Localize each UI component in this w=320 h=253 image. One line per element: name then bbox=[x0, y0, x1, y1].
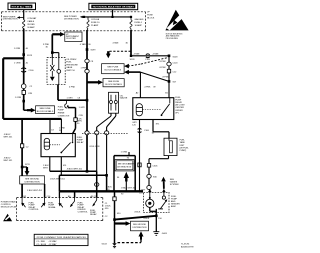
svg-text:PROCEDURES: PROCEDURES bbox=[166, 38, 178, 40]
fuel sender rheostat bbox=[158, 192, 167, 209]
svg-text:PRESSURE: PRESSURE bbox=[66, 64, 78, 66]
fuse 1 label bbox=[27, 17, 37, 29]
relay 2 label bbox=[175, 97, 185, 115]
svg-text:B1: B1 bbox=[165, 93, 168, 95]
PCM internal text 1 bbox=[29, 203, 40, 212]
label .8 BLK 150 bbox=[134, 212, 163, 221]
junction on ground wire bbox=[155, 215, 158, 218]
svg-text:C3: C3 bbox=[51, 130, 55, 132]
solid arrow into box A lower bbox=[124, 70, 140, 75]
svg-text:C100: C100 bbox=[144, 130, 150, 132]
sender pins down bbox=[97, 113, 116, 175]
svg-text:1 ORN: 1 ORN bbox=[14, 62, 21, 64]
splice 2 bbox=[22, 100, 25, 103]
svg-text:90: 90 bbox=[117, 177, 120, 179]
svg-text:30: 30 bbox=[46, 46, 49, 48]
relay 1 coil bbox=[44, 138, 49, 150]
svg-text:B1: B1 bbox=[152, 132, 155, 134]
svg-text:.8 BLK WHT 451: .8 BLK WHT 451 bbox=[67, 168, 83, 170]
svg-text:SEE FUSE: SEE FUSE bbox=[108, 81, 120, 83]
junction switch output bbox=[86, 99, 89, 102]
svg-text:.8 PNK: .8 PNK bbox=[159, 61, 166, 63]
svg-text:RELAY: RELAY bbox=[77, 141, 84, 144]
PCM dashed box bbox=[17, 198, 103, 221]
svg-text:CABLE: CABLE bbox=[27, 20, 34, 23]
wire from HOT AT ALL TIMES to fuse 1 bbox=[23, 10, 25, 20]
svg-text:SEE GROUND: SEE GROUND bbox=[25, 178, 39, 180]
pump terminal triangle bbox=[148, 189, 152, 192]
svg-text:SIGNAL: SIGNAL bbox=[48, 206, 56, 209]
C100 connector on GRY wire bbox=[138, 129, 142, 133]
svg-text:DISTRIBUTION: DISTRIBUTION bbox=[3, 19, 18, 21]
relay 1 label bbox=[77, 137, 84, 144]
svg-text:450: 450 bbox=[105, 208, 109, 210]
svg-text:RELAY: RELAY bbox=[90, 213, 97, 216]
svg-text:1 ORN: 1 ORN bbox=[15, 97, 22, 99]
svg-text:C16: C16 bbox=[47, 196, 52, 198]
pin labels A2 B1 bbox=[136, 92, 169, 95]
svg-text:1 BLK WHT 451: 1 BLK WHT 451 bbox=[50, 179, 66, 181]
svg-text:1 GRY: 1 GRY bbox=[139, 190, 146, 192]
svg-text:BLOCK DETAILS: BLOCK DETAILS bbox=[37, 110, 54, 113]
square connector on prime wire bbox=[74, 118, 77, 122]
svg-text:I/P: I/P bbox=[147, 12, 150, 14]
horizontal wire B bbox=[59, 174, 106, 176]
dashed ground route bbox=[118, 240, 142, 243]
down arrow inside switch bbox=[50, 77, 55, 81]
grommet 2 on PNK wire bbox=[85, 69, 89, 73]
square connector on frame right bbox=[138, 163, 141, 167]
fuse 2 label bbox=[91, 18, 100, 27]
svg-text:GAGE: GAGE bbox=[66, 66, 73, 69]
wire turn to arrow bbox=[24, 109, 30, 111]
svg-text:A1 C2: A1 C2 bbox=[91, 195, 98, 198]
PNK wire from fuse 2 down bbox=[86, 30, 88, 171]
svg-text:4 TAN: 4 TAN bbox=[80, 43, 86, 46]
svg-text:HOT AT ALL TIMES: HOT AT ALL TIMES bbox=[12, 5, 32, 8]
square connector on ground wire bbox=[113, 197, 116, 201]
svg-text:39: 39 bbox=[153, 87, 156, 89]
label .4 PNK 39 bbox=[144, 87, 157, 89]
junction S128 bbox=[168, 55, 171, 58]
svg-text:90: 90 bbox=[121, 194, 124, 196]
note box SEE GROUND DISTRIBUTION 2 bbox=[131, 221, 149, 231]
wire below note box 3 to PCM bbox=[44, 184, 46, 198]
svg-text:C8: C8 bbox=[91, 61, 95, 63]
note SEE POWER DISTRIBUTION left bbox=[3, 16, 18, 20]
dashed arrow into box A upper bbox=[124, 58, 168, 69]
svg-text:.8 PNK: .8 PNK bbox=[159, 67, 166, 69]
svg-text:PUMP): PUMP) bbox=[180, 150, 187, 152]
svg-text:DISTRIBUTION: DISTRIBUTION bbox=[117, 167, 131, 169]
junction dots on fuse bus bbox=[83, 16, 132, 18]
ESD warning triangle logo bbox=[165, 10, 188, 40]
svg-text:C100: C100 bbox=[29, 70, 35, 72]
PCM internal text 3 bbox=[78, 203, 89, 214]
svg-text:PRIME: PRIME bbox=[58, 112, 65, 114]
riser to cluster arrow bbox=[51, 34, 53, 52]
ground frame right vertical bbox=[134, 156, 136, 192]
wire from HOT IN RUN box down bbox=[112, 10, 114, 17]
svg-text:1 GRY: 1 GRY bbox=[128, 164, 135, 166]
svg-text:1 GRY: 1 GRY bbox=[79, 107, 86, 109]
svg-text:DISTRIBUTION: DISTRIBUTION bbox=[133, 227, 147, 229]
switch left pole with X bbox=[50, 58, 54, 77]
labels 8 BLK WHT 451 bbox=[4, 134, 14, 162]
svg-text:FUSE 10: FUSE 10 bbox=[91, 22, 100, 24]
wire x107 to thick bus bbox=[106, 175, 108, 191]
note SEE POWER DISTRIBUTION middle bbox=[64, 16, 79, 20]
note box SEE GROUND DISTRIBUTION 1 bbox=[115, 160, 134, 171]
relay 1 bottom pins bbox=[50, 157, 62, 176]
PCM internal text 4 bbox=[90, 210, 97, 216]
svg-text:4 TAN: 4 TAN bbox=[113, 42, 119, 45]
arrow into cluster box bbox=[52, 32, 65, 37]
fuel pump motor bbox=[146, 192, 154, 207]
svg-text:450: 450 bbox=[117, 213, 121, 215]
junction on wire A bbox=[86, 170, 89, 173]
relay 2 bottom pin left bbox=[139, 120, 141, 192]
grommet 2 on pump wire bbox=[147, 186, 151, 190]
thick bottom bus bbox=[59, 190, 143, 192]
svg-text:C2: C2 bbox=[30, 86, 34, 88]
relay 2 bottom pin right to prime box bbox=[153, 120, 169, 139]
svg-text:CONTROL: CONTROL bbox=[78, 211, 89, 213]
oil gauge sender box bbox=[109, 92, 119, 113]
svg-text:30 AMP: 30 AMP bbox=[27, 26, 35, 29]
small ESD triangle bbox=[3, 214, 12, 221]
oil pressure switch dashed box bbox=[47, 58, 65, 85]
svg-text:1 GRY: 1 GRY bbox=[67, 98, 74, 100]
splice S199 bbox=[86, 48, 89, 51]
svg-text:1 ORN: 1 ORN bbox=[14, 48, 21, 50]
svg-text:.4 PNK: .4 PNK bbox=[144, 87, 151, 89]
svg-text:.8 BLK GRY 451: .8 BLK GRY 451 bbox=[121, 188, 137, 190]
grommet connector on main wire bbox=[21, 84, 26, 89]
svg-text:TANK: TANK bbox=[180, 141, 186, 144]
svg-text:MODULE (PCM): MODULE (PCM) bbox=[1, 206, 17, 208]
svg-text:CONNECTOR: CONNECTOR bbox=[58, 115, 70, 117]
PCM pin drop at 59.4 bbox=[58, 191, 60, 197]
title box HOT AT ALL TIMES bbox=[8, 3, 36, 10]
svg-text:C1 - RED - 32 WAY: C1 - RED - 32 WAY bbox=[36, 240, 57, 243]
PCM drop from bus bbox=[74, 191, 76, 197]
relay 1 fuel pump relay box bbox=[41, 134, 75, 157]
svg-text:1 BLK WHT 451: 1 BLK WHT 451 bbox=[27, 190, 43, 192]
bottom pin labels bbox=[43, 165, 67, 169]
fuse bus wire bbox=[84, 16, 131, 18]
PCM internal text 2 bbox=[48, 203, 56, 209]
grommet on PNK wire bbox=[85, 59, 89, 63]
instrument cluster box bbox=[65, 32, 82, 42]
svg-text:FUSE 4: FUSE 4 bbox=[135, 22, 143, 24]
svg-text:S30: S30 bbox=[153, 176, 158, 178]
svg-text:G103: G103 bbox=[102, 244, 108, 246]
svg-text:C8: C8 bbox=[78, 98, 82, 100]
PCM internal drops bbox=[21, 198, 97, 208]
pin labels bbox=[51, 128, 66, 132]
square connector on main wire bbox=[22, 90, 25, 94]
fuel tank unit box bbox=[164, 138, 177, 155]
relay 2 coil bbox=[136, 104, 142, 116]
up arrow into note box 2 bbox=[139, 231, 144, 240]
ground feed horizontal bbox=[115, 216, 157, 220]
svg-text:1 ORN: 1 ORN bbox=[121, 152, 128, 154]
svg-text:SEE FUSE: SEE FUSE bbox=[40, 108, 52, 110]
branch to switch right pole bbox=[52, 53, 59, 58]
relay 1 link dashed bbox=[50, 144, 60, 146]
svg-text:.8 PNK: .8 PNK bbox=[162, 77, 169, 79]
up arrow into note box 1 bbox=[117, 172, 129, 192]
ground frame left vertical bbox=[113, 156, 115, 192]
svg-text:C2: C2 bbox=[105, 216, 109, 218]
arrow to left note bbox=[17, 16, 24, 18]
junction on ground wire bbox=[113, 218, 116, 221]
svg-text:150: 150 bbox=[158, 218, 162, 220]
square connector on pump wire bbox=[147, 164, 150, 168]
splice S211 bbox=[21, 166, 24, 169]
I/P fuse block label bbox=[147, 12, 155, 20]
svg-text:C305: C305 bbox=[153, 166, 159, 168]
svg-text:SWITCH: SWITCH bbox=[66, 70, 75, 72]
svg-text:GAUGES: GAUGES bbox=[135, 18, 145, 21]
svg-text:4 PNK: 4 PNK bbox=[69, 87, 76, 89]
fuel pump prime connector label bbox=[58, 106, 70, 117]
switch output wire to pump feed bbox=[58, 84, 87, 100]
horizontal feed wire bbox=[131, 55, 169, 57]
square connector bbox=[167, 69, 170, 73]
wire main ORN from fuse1 down bbox=[23, 29, 25, 111]
svg-text:120: 120 bbox=[139, 193, 143, 195]
relay 2 link dashed bbox=[142, 109, 160, 111]
svg-text:DISTRIBUTION: DISTRIBUTION bbox=[25, 181, 41, 183]
svg-text:40: 40 bbox=[26, 48, 29, 50]
svg-text:GAUGE: GAUGE bbox=[120, 97, 128, 100]
fuel pump label bbox=[171, 196, 180, 208]
stub into frame top bbox=[128, 152, 130, 156]
oil gauge label bbox=[120, 95, 128, 99]
svg-text:PCM CONNECTOR IDENTIFICATION: PCM CONNECTOR IDENTIFICATION bbox=[37, 236, 87, 239]
svg-text:25 AMP: 25 AMP bbox=[91, 24, 99, 27]
wire down to relay2 coil bbox=[139, 72, 141, 98]
fuse 3 label bbox=[135, 18, 145, 27]
wire labels left of PNK wire bbox=[77, 118, 100, 148]
square connector on PCM wire bbox=[20, 144, 23, 148]
svg-text:30: 30 bbox=[88, 44, 91, 46]
fuel pump dashed box bbox=[144, 192, 170, 212]
relay 1 switch blade bbox=[60, 134, 73, 154]
svg-text:CONTROL: CONTROL bbox=[29, 209, 40, 211]
svg-text:SEE GROUND: SEE GROUND bbox=[133, 224, 146, 226]
svg-text:ASM: ASM bbox=[171, 205, 176, 208]
svg-text:S199: S199 bbox=[91, 49, 97, 51]
svg-text:S128: S128 bbox=[173, 56, 179, 58]
label 3 PNK 30 bbox=[43, 44, 50, 48]
svg-text:AGDBO4TTE: AGDBO4TTE bbox=[181, 245, 194, 248]
wire from box to pump bbox=[149, 156, 169, 189]
svg-text:S211: S211 bbox=[25, 164, 31, 166]
svg-text:B2: B2 bbox=[24, 196, 27, 198]
svg-text:C12: C12 bbox=[173, 71, 178, 73]
fuse 2 CLSTR bbox=[87, 17, 89, 20]
junction on wire B bbox=[105, 174, 108, 177]
down arrow to note box 3 bbox=[25, 167, 30, 176]
splice S128 bbox=[22, 53, 25, 56]
labels .8 PNK 39 bbox=[159, 61, 169, 79]
relay 1 top pins bbox=[50, 119, 61, 134]
svg-text:DISTRIBUTION: DISTRIBUTION bbox=[64, 19, 79, 21]
svg-text:CLUSTER: CLUSTER bbox=[66, 38, 76, 40]
svg-text:S128: S128 bbox=[130, 59, 136, 61]
svg-text:871: 871 bbox=[156, 124, 160, 126]
svg-text:S128: S128 bbox=[27, 55, 33, 57]
svg-text:OIL PRES/: OIL PRES/ bbox=[66, 59, 77, 61]
svg-text:S17: S17 bbox=[173, 82, 178, 84]
svg-text:C100: C100 bbox=[145, 59, 151, 61]
note box A SEE FUSE BLOCK DETAILS bbox=[102, 64, 125, 74]
fuse 3 GAUGES bbox=[130, 17, 132, 20]
arrow to fuse details box 2 bbox=[87, 80, 103, 85]
svg-text:40: 40 bbox=[26, 62, 29, 64]
labels 4 TAN bbox=[133, 52, 159, 55]
connector C100 on main wire bbox=[21, 68, 26, 72]
labels along ground wire bbox=[105, 187, 121, 218]
PCM wire from bus left bbox=[21, 119, 23, 198]
fuse 1 ECM B bbox=[23, 20, 25, 29]
wire x97 to PCM bbox=[96, 171, 98, 197]
svg-text:RELAY: RELAY bbox=[175, 101, 182, 104]
svg-text:C2 - BLUE - 32 WAY: C2 - BLUE - 32 WAY bbox=[36, 243, 57, 246]
oil pressure switch label bbox=[66, 59, 78, 72]
thick arrow into ground note box 2 bbox=[115, 221, 131, 226]
C100 dashed line bbox=[82, 133, 128, 135]
junction at riser bottom bbox=[51, 51, 54, 54]
ground wire below bus bbox=[114, 191, 116, 243]
branch to ground note bbox=[22, 166, 27, 168]
svg-text:WHT: WHT bbox=[43, 167, 48, 169]
svg-text:.4 TAN: .4 TAN bbox=[152, 52, 159, 55]
svg-text:PUMP: PUMP bbox=[58, 109, 65, 111]
svg-text:SEE FUSE: SEE FUSE bbox=[107, 67, 119, 69]
ground symbol at wire end bbox=[112, 243, 117, 247]
svg-text:C2: C2 bbox=[26, 146, 30, 148]
grommet on wire x97 bbox=[95, 183, 99, 187]
svg-text:C120: C120 bbox=[173, 62, 179, 64]
svg-text:.8 BLK: .8 BLK bbox=[134, 212, 141, 214]
C100 grommets row bbox=[85, 131, 109, 135]
svg-text:CON KA: CON KA bbox=[91, 18, 100, 21]
wire branch to left bus bbox=[3, 58, 61, 119]
sender note label bbox=[170, 179, 179, 186]
svg-text:30: 30 bbox=[126, 43, 129, 45]
thick down arrow from dashed bbox=[106, 51, 131, 58]
svg-text:A2: A2 bbox=[136, 92, 139, 95]
svg-text:71-39-94: 71-39-94 bbox=[181, 244, 190, 246]
PCM connector table bbox=[34, 234, 88, 246]
ground G403 bbox=[153, 232, 159, 236]
svg-text:I/P): I/P) bbox=[175, 112, 179, 114]
svg-text:C2B: C2B bbox=[28, 93, 33, 95]
svg-text:FUSE: FUSE bbox=[147, 15, 153, 17]
tank unit label bbox=[180, 140, 190, 152]
fuse block dashed box bbox=[2, 12, 146, 31]
svg-text:30: 30 bbox=[77, 123, 80, 125]
label 1 ORN 40 lower bbox=[14, 62, 29, 64]
svg-text:.8 DK GRN: .8 DK GRN bbox=[89, 146, 100, 148]
svg-text:120: 120 bbox=[132, 124, 136, 126]
relay 2 switch blade bbox=[161, 98, 170, 116]
ground frame top bbox=[114, 155, 135, 157]
bus wire y55.8 from fuse3 to relay2 bbox=[130, 30, 132, 56]
arrow to fuse details box bbox=[27, 108, 36, 113]
svg-text:BLOCK DETAILS: BLOCK DETAILS bbox=[105, 69, 122, 72]
svg-text:BLOCK: BLOCK bbox=[147, 18, 155, 20]
svg-text:2E RED: 2E RED bbox=[27, 24, 35, 26]
relay 2 box bbox=[133, 98, 174, 120]
labels 120 GRY bbox=[132, 122, 137, 127]
svg-text:SYSTEM: SYSTEM bbox=[170, 184, 179, 186]
svg-text:.4 TAN: .4 TAN bbox=[133, 52, 140, 55]
svg-text:C2B: C2B bbox=[79, 115, 84, 117]
grommet 1 on pump wire bbox=[147, 174, 151, 178]
note box SEE GROUND DISTRIBUTION 3 bbox=[20, 176, 45, 184]
PCM label bbox=[1, 200, 17, 208]
pump ground wire bbox=[150, 207, 157, 231]
title box HOT IN RUN BULB TEST OR START bbox=[89, 3, 138, 9]
note box SEE FUSE BLOCK DETAILS 2 bbox=[103, 79, 124, 87]
sender signal up arrow bbox=[161, 177, 166, 189]
prime connector symbol bbox=[65, 100, 69, 108]
horizontal wire A from relay1 bbox=[50, 170, 97, 172]
wire down to relay 2 bbox=[168, 56, 170, 98]
sender terminal triangle bbox=[162, 189, 166, 192]
diagonal wire to S17 bbox=[140, 72, 169, 81]
svg-text:FUEL: FUEL bbox=[66, 62, 72, 64]
C100 connector on feed wire bbox=[146, 54, 150, 58]
svg-text:FUEL: FUEL bbox=[58, 106, 64, 108]
svg-text:G403: G403 bbox=[162, 233, 168, 235]
switch right pole with contact bbox=[57, 58, 61, 85]
note box SEE FUSE BLOCK DETAILS 1 bbox=[36, 106, 55, 114]
svg-text:WHT 451: WHT 451 bbox=[4, 160, 14, 162]
svg-text:CON BAT: CON BAT bbox=[27, 17, 37, 20]
prime connector wire bbox=[68, 108, 76, 134]
junction S17 bbox=[168, 80, 171, 83]
wire down from B to thick bus bbox=[58, 175, 60, 191]
svg-text:BLOCK DETAILS: BLOCK DETAILS bbox=[105, 83, 122, 86]
svg-text:10 AMP: 10 AMP bbox=[135, 24, 143, 27]
arrow to middle note bbox=[80, 16, 84, 18]
PCM pin labels bbox=[24, 195, 98, 198]
svg-text:.8 BLK: .8 BLK bbox=[143, 218, 150, 220]
svg-text:451: 451 bbox=[63, 165, 67, 167]
svg-text:HOT IN RUN, BULB TEST OR START: HOT IN RUN, BULB TEST OR START bbox=[93, 5, 135, 8]
grommet on wire bbox=[167, 62, 171, 66]
svg-text:WHT 451: WHT 451 bbox=[4, 136, 14, 138]
